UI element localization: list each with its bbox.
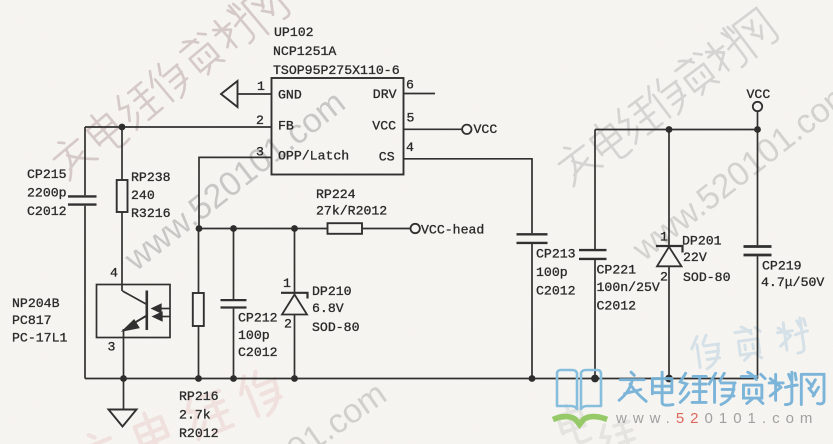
op-amp U1: IC UP102 body (272, 78, 404, 175)
node bus DP210 (291, 375, 298, 382)
wire RP216 (198, 229, 200, 379)
node mid bus CP212 (230, 225, 237, 232)
capacitor CP212 plates (221, 300, 247, 307)
emitter diagonal (130, 316, 147, 326)
watermark: faint blue cursive above logo right (690, 317, 810, 370)
watermark: pink cursive hanzi bottom-left (73, 366, 287, 444)
node bus RP216 (195, 375, 202, 382)
logo hanzi row (blue) (619, 372, 824, 405)
light arrow 1 (159, 308, 170, 310)
wire RP238 top (121, 127, 123, 180)
node bus CP221 (591, 375, 599, 383)
resistor R3: RP216 body (193, 293, 204, 326)
light arrow 2 (160, 316, 170, 318)
node mid bus left (196, 225, 203, 232)
logo book icon (557, 370, 601, 409)
bottom bus wire (85, 378, 758, 380)
node mid bus DP210 (291, 225, 298, 232)
watermark: diagonal hanzi band top-left (47, 0, 292, 181)
optocoupler NP204B box (97, 285, 171, 338)
resistor R1: RP238 body (117, 180, 128, 212)
wire CP219 (757, 130, 759, 379)
logo green swoosh (556, 417, 605, 425)
capacitor CP213 plates (517, 234, 548, 243)
node bus CP213 (529, 375, 536, 382)
wire RP238 bottom to opto pin4 (121, 212, 123, 291)
watermark: diagonal hanzi band top-right (552, 8, 780, 187)
node bus DP201 (665, 375, 673, 383)
wire emitter to bottom bus (123, 329, 125, 379)
terminal VCC top right (753, 102, 762, 111)
collector diagonal (123, 291, 147, 304)
wire right top net (595, 130, 758, 379)
capacitor CP215 plates (68, 196, 97, 204)
ground flag (left arrow) at pin 1 (221, 81, 238, 107)
node right net DP201 (666, 126, 673, 133)
capacitor CP221 plates (579, 250, 607, 259)
wire pin1 GND stub (238, 93, 272, 95)
wire left rail (CP215 branch) (84, 127, 86, 379)
emitter arrowhead (124, 320, 139, 330)
terminal VCC (pin5) (462, 125, 471, 134)
node right net VCC (754, 126, 761, 133)
wire pin5 VCC (404, 128, 463, 130)
wire to ground (123, 379, 125, 410)
wire CP212 (233, 229, 235, 379)
node bus opto (120, 375, 127, 382)
mid bus wire (199, 228, 410, 230)
zener diode DP210 (281, 293, 308, 299)
wire pin6 DRV stub (404, 93, 436, 95)
transistor Q1: phototransistor bar (146, 291, 149, 331)
zener diode DP201 (656, 246, 683, 253)
node FB/RP238 (119, 124, 126, 131)
wire DP201 (668, 130, 670, 379)
watermark: faint gray cursive behind logo (555, 401, 638, 444)
ground symbol (109, 410, 137, 427)
wire FB net pin2 (85, 126, 272, 128)
paper noise overlay (0, 0, 1, 1)
wire VCC terminal to net (757, 111, 759, 129)
wire pin3 OPP/Latch (199, 157, 272, 228)
capacitor CP219 plates (744, 247, 772, 256)
resistor R2: RP224 body (328, 223, 363, 234)
node bus CP212 (230, 375, 237, 382)
wire DP210 (294, 229, 296, 379)
terminal VCC-head (411, 224, 420, 233)
wire pin4 CS (404, 159, 533, 379)
